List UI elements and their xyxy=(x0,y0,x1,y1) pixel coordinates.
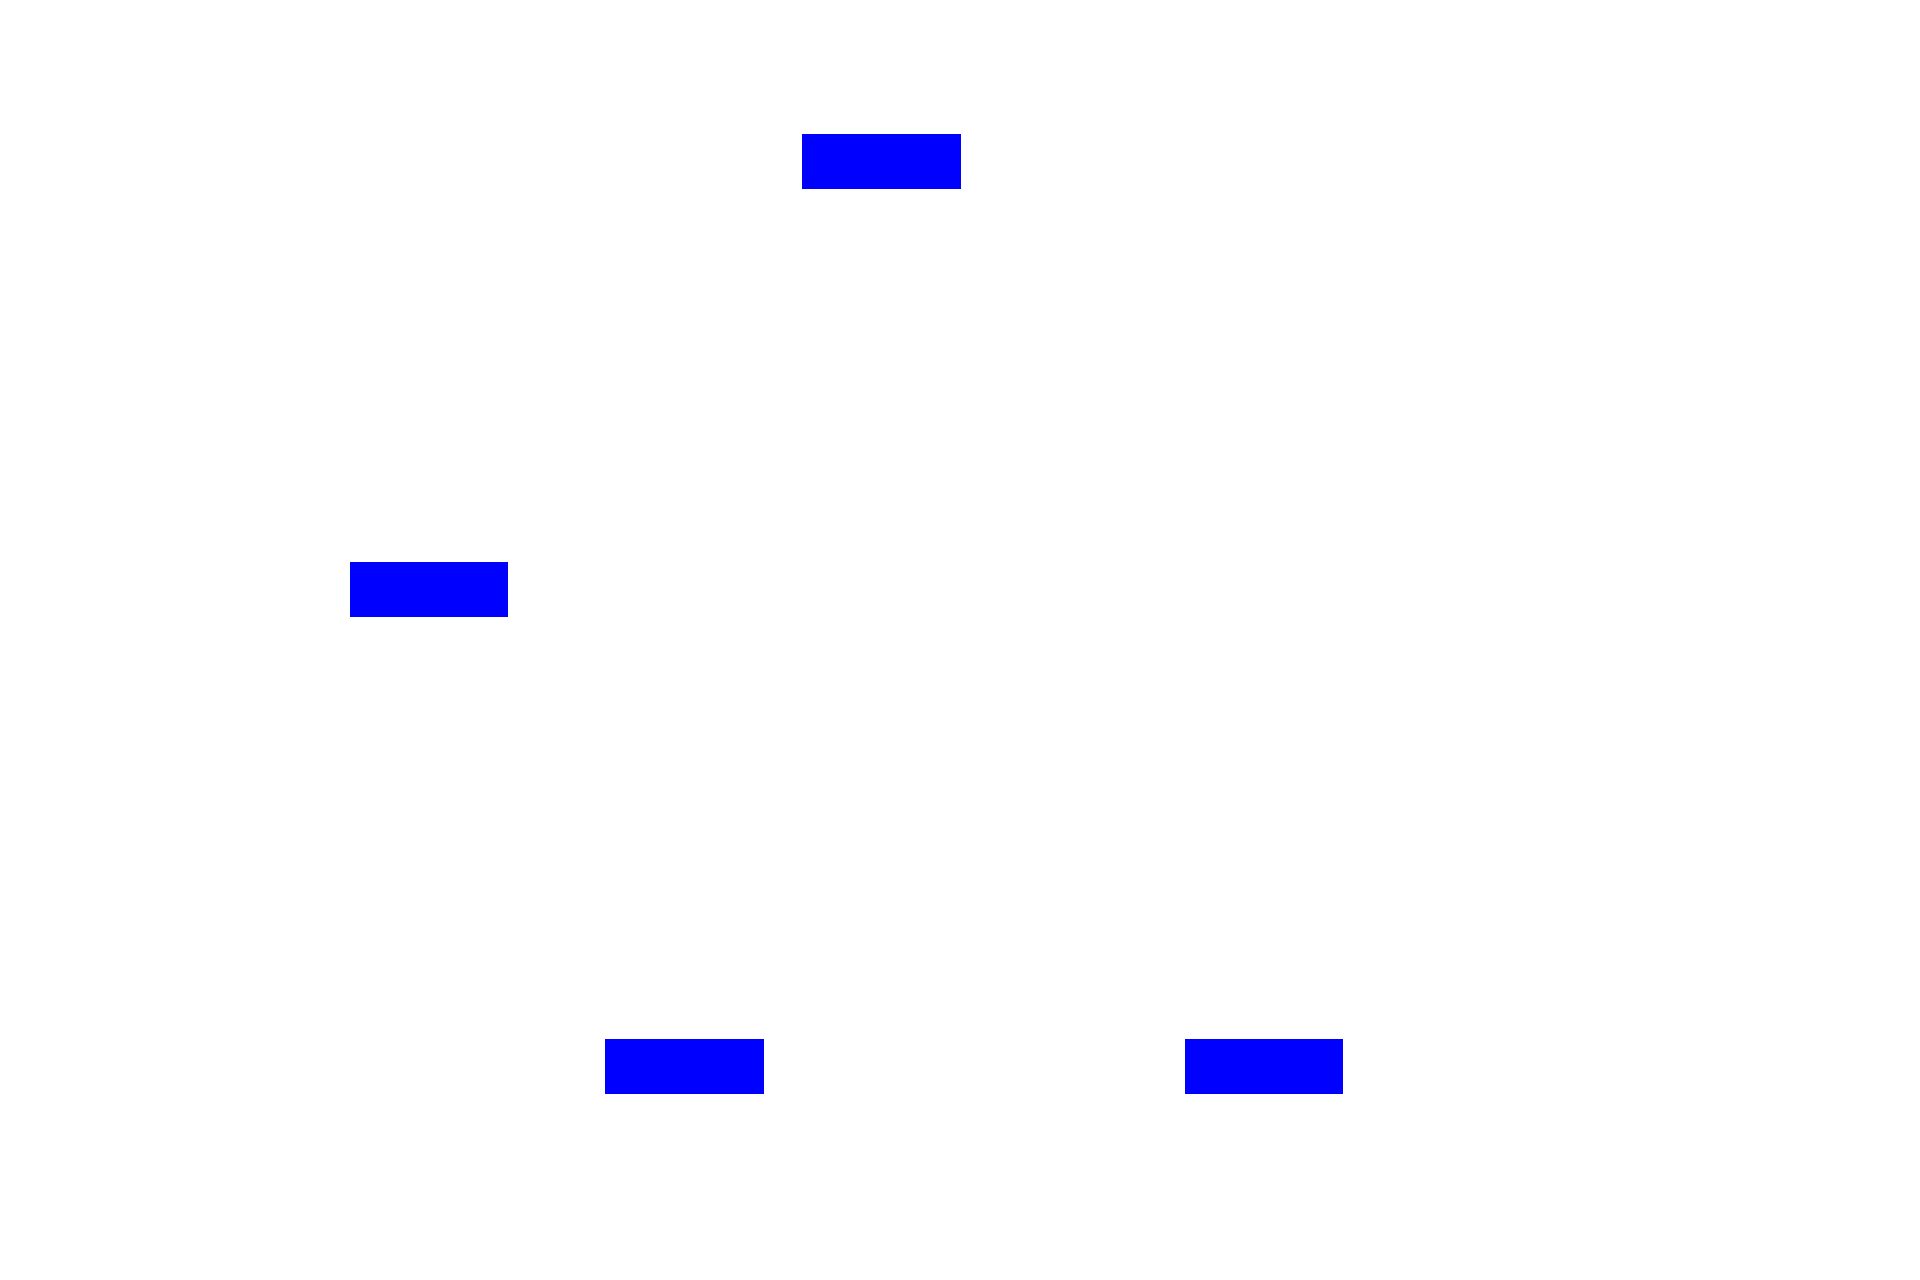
component box 1 (top center, masked component) xyxy=(802,134,961,189)
component box 3 (bottom center-left, masked component) xyxy=(605,1039,764,1094)
component box 2 (middle left, masked component) xyxy=(350,562,508,617)
component box 4 (bottom center-right, masked component) xyxy=(1185,1039,1343,1094)
